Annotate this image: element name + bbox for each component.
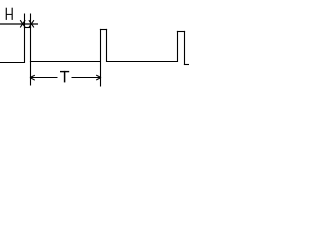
arrowhead H right (tick cross at x=30) [29, 20, 34, 27]
dimension line T right segment [72, 77, 102, 79]
wire: pulse 3 right edge [184, 31, 186, 65]
label H [6, 8, 13, 20]
wire: pulse 3 top [177, 31, 185, 33]
wire: pulse 2 top [100, 29, 107, 31]
wire: low baseline right segment [184, 64, 189, 66]
wire: pulse 3 left edge [177, 31, 179, 62]
arrowhead H left (tick cross at x=24) [20, 20, 25, 27]
wire: pulse 2 left edge + T extension line [100, 29, 102, 87]
wire: low baseline middle segment [30, 61, 101, 63]
wire: pulse 1 top [24, 27, 31, 29]
dimension line T left segment [30, 77, 58, 79]
wire: pulse 2 right edge [106, 29, 108, 62]
arrowhead T right [96, 75, 101, 77]
dimension line H [0, 23, 38, 25]
wire: low baseline left segment [0, 62, 25, 64]
label T [60, 71, 69, 83]
wire: pulse 1 left edge + H extension line [24, 14, 26, 64]
wire: pulse 1 right edge + H extension + T extension line [30, 14, 32, 86]
arrowhead T left [30, 75, 35, 77]
wire: low baseline between pulse 2 and pulse 3 [106, 61, 178, 63]
